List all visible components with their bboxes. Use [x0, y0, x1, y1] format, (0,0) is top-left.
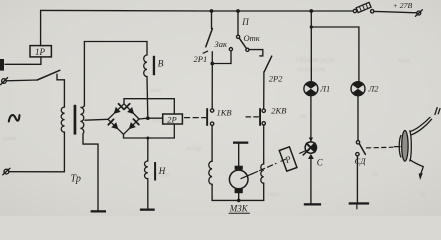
bridge diode (bottom-right)	[129, 119, 139, 129]
wire: secondary top riser	[83, 42, 85, 106]
wire: 2P1 lower lead	[211, 52, 213, 109]
ground (under SD)	[349, 202, 369, 209]
wire: 1P bottom to left terminal	[5, 57, 41, 64]
wire: motor bottom brush to bus	[238, 193, 240, 200]
motor shaft mechanical link (dashed)	[260, 164, 277, 171]
transformer core	[74, 105, 77, 135]
wire: 2P2 to 2KB contact	[263, 72, 265, 109]
wire: 1KB to motor field left	[211, 125, 213, 161]
svg-text:+ 27В: + 27В	[393, 1, 413, 10]
svg-text:С: С	[317, 157, 324, 167]
wire: coil H to ground	[147, 179, 149, 209]
node: bottom rail crosses B-H line	[146, 137, 149, 140]
terminal block (left edge)	[0, 59, 4, 71]
wire: rail drop to relay 1P	[40, 10, 42, 45]
wire: contact C to ground	[310, 159, 312, 204]
mechanical link to 2KB (dashed)	[246, 116, 259, 118]
wire: fuse to +27V terminal	[374, 11, 417, 12]
svg-text:Общие усло: Общие усло	[296, 55, 335, 64]
wire: 2KB to motor field right	[263, 125, 265, 164]
svg-text:2Р2: 2Р2	[269, 74, 283, 84]
svg-text:П: П	[241, 17, 249, 27]
label МЗК (underlined)	[229, 204, 250, 214]
contact 2P1 seat tick	[203, 51, 207, 53]
lamp Л1	[304, 82, 318, 96]
svg-text:авто: авто	[150, 87, 162, 94]
terminal +27В	[415, 10, 422, 16]
wire: right field to bottom bus	[263, 183, 265, 200]
fuse (top right)	[353, 2, 374, 13]
wire: primary bottom leg	[63, 132, 65, 172]
switch СД (open)	[356, 141, 366, 156]
switch П pivot circle	[237, 35, 240, 38]
mechanical link 2P to 1KB (dashed)	[185, 117, 206, 119]
wire: top supply rail	[41, 9, 353, 12]
wire: junction to 2P left side	[148, 117, 163, 119]
switch blade (mains switch)	[37, 70, 60, 80]
motor МЗК armature	[229, 166, 248, 194]
svg-text:котор: котор	[186, 145, 201, 152]
wire: 2P top lead	[173, 99, 175, 114]
terminal ø upper (AC input)	[1, 78, 8, 85]
ground (under C)	[304, 203, 321, 205]
wire: left field to bottom bus	[211, 184, 213, 200]
relay 2Р	[163, 114, 183, 124]
wire: bridge right to junction	[139, 117, 148, 120]
wire: coil B bottom to junction	[146, 76, 149, 118]
svg-text:Н: Н	[158, 166, 166, 176]
node: junction to Зак branch	[210, 62, 214, 66]
label ~ (AC)	[9, 115, 20, 121]
wire: rail to 2P1 contact	[211, 11, 213, 29]
contact 2Р1 blade (open)	[206, 29, 213, 47]
svg-text:Л1: Л1	[319, 84, 330, 94]
node: branch to L2	[310, 25, 313, 28]
rectifier bridge diamond	[108, 104, 139, 135]
ground (under transformer)	[91, 210, 106, 212]
motor shaft (solid part)	[241, 172, 258, 179]
contact 2Р2 blade (open)	[264, 56, 272, 72]
transformer Тр secondary winding	[80, 106, 84, 134]
wire: top link to coil B	[84, 41, 147, 43]
wire: rail down to lamp L1	[310, 11, 312, 82]
svg-text:Л2: Л2	[368, 84, 380, 94]
gearbox Р (tilted box)	[279, 147, 297, 171]
switch fixed contact hook to transformer primary	[57, 74, 64, 107]
wire: 2P bottom lead	[173, 124, 175, 138]
wire: coil B top lead	[146, 42, 148, 56]
wire: bridge top to 2P top rail	[124, 99, 174, 104]
lamp Л2	[351, 82, 365, 96]
svg-text:зв: зв	[372, 171, 378, 178]
transformer Тр primary winding	[61, 107, 64, 132]
node: rail junction for 2P1	[210, 9, 214, 13]
svg-text:1КВ: 1КВ	[217, 107, 232, 117]
wire: junction down to coil H	[147, 138, 149, 161]
bridge diode (bottom-left)	[108, 119, 118, 129]
coil Н winding	[145, 161, 148, 179]
limit switch 1КВ	[206, 108, 214, 126]
horn (siren)	[395, 108, 441, 180]
svg-text:СД: СД	[355, 156, 367, 166]
limit switch 2КВ	[259, 108, 265, 126]
coil H core	[154, 162, 156, 181]
bridge diode (top-right)	[124, 104, 134, 114]
wire: SD to ground	[356, 156, 358, 203]
coil В winding	[144, 55, 147, 77]
switch П blade	[239, 38, 246, 48]
wire: bottom AC return	[9, 171, 64, 173]
svg-text:пере: пере	[268, 191, 281, 198]
link dash inside box	[281, 159, 286, 161]
node: rail junction for lamps	[309, 9, 313, 13]
svg-text:2Р: 2Р	[167, 114, 176, 124]
wire: branch to Зак contact	[212, 51, 231, 64]
svg-text:вк: вк	[300, 113, 307, 120]
wire: bridge bottom rail to 2P bottom	[124, 134, 175, 138]
svg-text:1Р: 1Р	[35, 47, 46, 57]
bridge diode (top-left)	[114, 104, 124, 114]
svg-text:2КВ: 2КВ	[271, 106, 286, 116]
mechanical link SD to horn (dashed)	[367, 146, 394, 149]
wire: Отк to 2P2 fixed contact	[249, 50, 263, 56]
terminal ø lower (AC input)	[3, 168, 10, 175]
wire: L1 to contact C	[310, 96, 312, 142]
svg-text:ус: ус	[420, 191, 426, 198]
wire: secondary bottom to ground	[83, 134, 98, 211]
wire: secondary tap to bridge	[85, 118, 108, 121]
wire: motor top brush to ground	[238, 144, 240, 166]
coil B core	[153, 56, 155, 75]
wire: from upper terminal to switch	[6, 79, 37, 82]
svg-text:Зак: Зак	[215, 39, 228, 49]
ground (above motor)	[233, 142, 248, 144]
node: junction of B, bridge, 2P	[146, 116, 150, 120]
svg-text:В: В	[158, 60, 164, 70]
svg-text:сл: сл	[380, 145, 387, 152]
svg-text:МЗК: МЗК	[229, 204, 249, 214]
svg-text:общ: общ	[398, 57, 410, 64]
svg-text:Отк: Отк	[244, 33, 261, 43]
ground (under coil H)	[140, 209, 155, 211]
motor field winding (left)	[209, 161, 212, 184]
node: rail junction for switch П	[236, 9, 240, 13]
wire: branch over to lamp L2	[311, 27, 359, 82]
svg-text:прим: прим	[2, 135, 16, 142]
wire: rail to switch P pivot	[237, 11, 239, 35]
svg-text:Тр: Тр	[71, 174, 81, 185]
contact circle Отк	[246, 48, 249, 51]
wire: L2 down to SD switch	[357, 96, 359, 141]
contact circle Зак	[229, 48, 232, 51]
relay 1Р	[30, 46, 51, 57]
sliding contact С	[303, 138, 316, 160]
wire: motor bottom bus	[212, 199, 264, 201]
svg-text:2Р1: 2Р1	[194, 54, 208, 64]
node: motor to bus junction	[237, 199, 241, 203]
motor field winding (right)	[261, 164, 264, 183]
mechanical link P to C (dashed)	[300, 151, 305, 153]
